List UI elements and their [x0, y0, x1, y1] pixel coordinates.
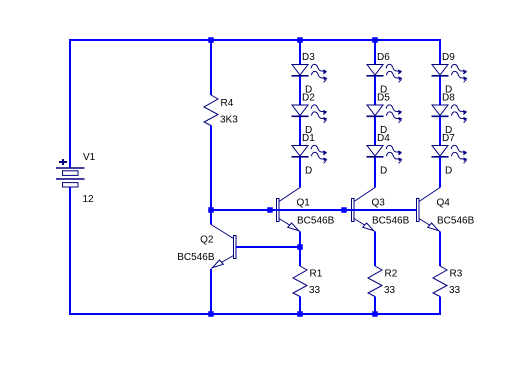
- svg-text:Q4: Q4: [437, 198, 451, 209]
- svg-text:R2: R2: [385, 269, 398, 280]
- wire R2 bottom: [374, 297, 376, 316]
- wire D4 to Q3 collector: [374, 158, 376, 188]
- wire Q3 emitter: [374, 232, 376, 267]
- LED D3: [292, 52, 328, 96]
- junction node bottom Q2: [208, 311, 214, 317]
- wire R4 bottom to Q2 collector: [210, 126, 212, 225]
- svg-text:D7: D7: [442, 133, 455, 144]
- wire D3 to D2: [299, 77, 301, 106]
- junction node Q3 base: [341, 207, 347, 213]
- svg-text:D1: D1: [302, 133, 315, 144]
- resistor R1 33: [293, 266, 323, 297]
- svg-text:BC546B: BC546B: [437, 216, 475, 227]
- svg-text:33: 33: [449, 285, 461, 296]
- wire col Q1 top: [299, 39, 301, 65]
- svg-text:Q3: Q3: [372, 198, 386, 209]
- battery V1 12V: [56, 152, 96, 205]
- wire D9 to D8: [439, 77, 441, 106]
- wire Q2 emitter: [210, 269, 212, 315]
- LED D9: [432, 52, 468, 96]
- svg-text:BC546B: BC546B: [372, 216, 410, 227]
- svg-text:33: 33: [384, 285, 396, 296]
- wire base rail: [211, 209, 417, 211]
- transistor Q1 BC546B: [277, 188, 335, 232]
- svg-text:D: D: [305, 166, 312, 177]
- wire col Q3 top: [374, 39, 376, 65]
- junction node Q2 base / Q1 emitter: [297, 244, 303, 250]
- svg-text:12: 12: [83, 194, 95, 205]
- svg-text:R4: R4: [221, 98, 234, 109]
- svg-text:R1: R1: [310, 269, 323, 280]
- wire bottom rail: [70, 313, 440, 315]
- wire Q1 emitter: [299, 232, 301, 267]
- wire top rail: [70, 39, 440, 41]
- wire D6 to D5: [374, 77, 376, 106]
- svg-text:BC546B: BC546B: [297, 216, 335, 227]
- LED D4: [367, 133, 403, 177]
- wire R3 bottom: [439, 297, 441, 316]
- svg-text:D4: D4: [377, 133, 390, 144]
- svg-text:D3: D3: [302, 52, 315, 63]
- LED D5: [367, 93, 403, 137]
- wire Q4 emitter: [439, 232, 441, 267]
- resistor R3 33: [433, 266, 463, 297]
- wire col Q4 top: [439, 39, 441, 65]
- junction node base rail left: [208, 207, 214, 213]
- wire D1 to Q1 collector: [299, 158, 301, 188]
- transistor Q3 BC546B: [352, 188, 410, 232]
- svg-text:3K3: 3K3: [220, 115, 238, 126]
- wire D8 to D7: [439, 117, 441, 146]
- wire R4 top: [210, 39, 212, 95]
- wire left rail upper: [69, 39, 71, 167]
- junction node top col1: [297, 37, 303, 43]
- svg-text:Q2: Q2: [200, 235, 214, 246]
- wire D5 to D4: [374, 117, 376, 146]
- LED D2: [292, 93, 328, 137]
- wire R1 bottom: [299, 297, 301, 316]
- junction node top col2: [372, 37, 378, 43]
- svg-text:D: D: [380, 166, 387, 177]
- resistor R4 3K3: [204, 95, 238, 126]
- svg-text:Q1: Q1: [297, 198, 311, 209]
- LED D7: [432, 133, 468, 177]
- svg-text:D9: D9: [442, 52, 455, 63]
- wire D7 to Q4 collector: [439, 158, 441, 188]
- svg-text:D2: D2: [302, 93, 315, 104]
- transistor Q2 BC546B: [177, 225, 236, 269]
- svg-text:R3: R3: [450, 269, 463, 280]
- junction node bottom R2: [372, 311, 378, 317]
- junction node top R4: [208, 37, 214, 43]
- wire D2 to D1: [299, 117, 301, 146]
- wire Q2 base: [236, 246, 300, 248]
- junction node Q1 base: [267, 207, 273, 213]
- junction node bottom R1: [297, 311, 303, 317]
- LED D8: [432, 93, 468, 137]
- resistor R2 33: [368, 266, 398, 297]
- LED D1: [292, 133, 328, 177]
- svg-text:D: D: [445, 166, 452, 177]
- svg-text:V1: V1: [83, 152, 96, 163]
- svg-text:D8: D8: [442, 93, 455, 104]
- svg-text:D6: D6: [377, 52, 390, 63]
- LED D6: [367, 52, 403, 96]
- svg-text:33: 33: [309, 285, 321, 296]
- wire left rail lower: [69, 188, 71, 316]
- svg-text:D5: D5: [377, 93, 390, 104]
- transistor Q4 BC546B: [417, 188, 475, 232]
- svg-text:BC546B: BC546B: [177, 252, 215, 263]
